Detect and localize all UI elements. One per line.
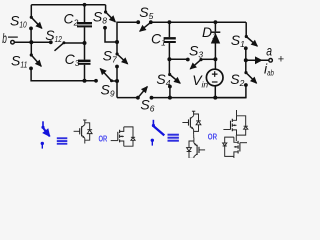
diode D1 — [211, 22, 221, 59]
node a-branch junction — [244, 58, 248, 62]
wire mid junction up to S5 — [117, 22, 138, 42]
legend right: switch plain — [151, 120, 165, 146]
wire b to S12 — [14, 41, 51, 43]
legend left: equiv sign — [57, 137, 68, 144]
terminal b — [11, 40, 15, 44]
svg-text:S9: S9 — [101, 82, 115, 99]
switch S7 — [115, 42, 128, 68]
svg-text:C1: C1 — [151, 31, 166, 48]
svg-text:+: + — [278, 54, 284, 66]
node S4 bottom — [168, 96, 172, 100]
wire top rail — [31, 4, 105, 6]
switch S1 — [244, 22, 257, 50]
wire mid vertical to bottom rail — [116, 67, 118, 98]
wire C1 junction to S3 left — [169, 58, 187, 60]
terminal a — [269, 59, 273, 63]
IGBT bottom device of pair (rotated) — [187, 138, 206, 162]
svg-text:Vin: Vin — [192, 72, 208, 89]
arrow iab — [255, 56, 263, 64]
node top-rail/C2 junction — [83, 3, 87, 7]
legend right: equiv sign — [168, 134, 179, 142]
wire bottom rail — [151, 97, 246, 99]
wire MOSFET pair top lead — [236, 110, 238, 116]
svg-text:S11: S11 — [11, 53, 28, 70]
node mid junction — [115, 40, 119, 44]
switch S11 — [29, 40, 41, 70]
svg-text:a: a — [266, 43, 272, 59]
wire bottom rail right — [117, 97, 138, 99]
node C2/C3 junction — [83, 41, 87, 45]
switch S6 — [136, 87, 153, 100]
wire S1 to node a-branch — [245, 48, 247, 60]
MOSFET top device of pair — [223, 116, 247, 135]
wire series link MOSFET pair — [235, 135, 237, 141]
legend left: switch with arrow — [41, 121, 50, 148]
svg-text:S2: S2 — [230, 71, 244, 88]
legend left: MOSFET with diode — [111, 127, 135, 146]
svg-text:b: b — [2, 30, 7, 46]
MOSFET bottom device of pair (rotated) — [223, 137, 247, 156]
switch S9 — [94, 69, 119, 83]
wire MOSFET pair bottom lead — [233, 156, 235, 159]
capacitor C1 — [164, 22, 176, 59]
switch S5 — [136, 20, 152, 31]
switch S4 — [168, 59, 180, 97]
svg-text:S12: S12 — [45, 27, 62, 44]
svg-text:S1: S1 — [231, 32, 245, 49]
wire series link IGBT pair — [193, 135, 195, 138]
svg-text:iab: iab — [264, 60, 274, 77]
switch S2 — [244, 60, 257, 87]
svg-text:C3: C3 — [65, 51, 80, 68]
IGBT top device of pair — [182, 111, 201, 135]
svg-text:OR: OR — [208, 132, 218, 141]
wire S12 to C junction — [64, 42, 85, 44]
wire left bottom rail — [31, 68, 96, 80]
svg-text:C2: C2 — [64, 11, 79, 28]
svg-text:S5: S5 — [139, 4, 153, 21]
switch S8 — [103, 5, 115, 30]
minus sign at b — [8, 36, 18, 38]
node C1 top — [168, 20, 172, 24]
legend right: series IGBT pair — [182, 111, 205, 161]
node C3 bottom — [83, 79, 87, 83]
node S3/D1/Vin junction — [213, 57, 217, 61]
switch S12 — [49, 40, 66, 50]
wire S8 bottom to mid junction — [105, 28, 117, 42]
wire a-branch — [246, 59, 269, 61]
switch S3 — [186, 58, 215, 69]
capacitor C3 — [78, 43, 91, 81]
node Vin bottom — [213, 96, 217, 100]
legend left: IGBT with diode — [74, 120, 93, 144]
switch S10 — [29, 5, 42, 31]
svg-text:OR: OR — [99, 134, 108, 143]
legend right: series MOSFET pair — [223, 110, 248, 159]
svg-text:S3: S3 — [189, 42, 203, 59]
wire S5 to top-right corner — [151, 21, 246, 23]
wire S10 to node b — [30, 28, 32, 42]
source Vin — [206, 59, 223, 97]
svg-text:S7: S7 — [103, 47, 117, 64]
wire S2 bottom to rail — [215, 85, 246, 98]
svg-text:S10: S10 — [10, 12, 27, 29]
node C1 bottom junction — [167, 57, 171, 61]
node D1 top — [214, 20, 218, 24]
capacitor C2 — [77, 5, 92, 43]
